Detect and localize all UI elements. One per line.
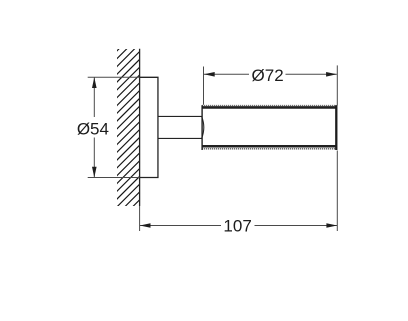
- svg-text:Ø54: Ø54: [77, 119, 109, 138]
- svg-text:107: 107: [223, 216, 251, 235]
- svg-text:Ø72: Ø72: [252, 66, 284, 85]
